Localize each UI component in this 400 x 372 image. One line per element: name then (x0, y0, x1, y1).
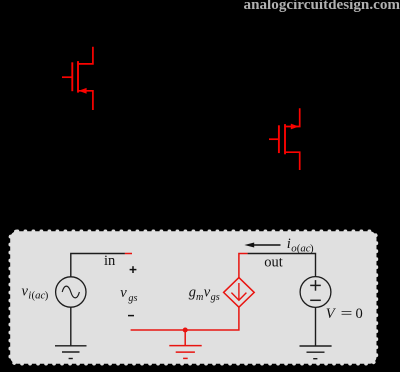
minus sign V0 (310, 299, 321, 301)
source wire M2 (top) (285, 108, 300, 126)
plus sign (vgs) (130, 266, 137, 273)
gate lead M2 (269, 138, 278, 140)
gate bar M1 (71, 62, 73, 91)
dependent source G1 (diamond) (224, 278, 255, 308)
channel bar M1 (77, 61, 79, 93)
node in (red tip) (125, 253, 132, 255)
svg-text:): ) (310, 242, 314, 254)
label out (264, 255, 283, 271)
wire: G1 bottom + bottom rail (131, 307, 239, 330)
ground center (red) (169, 330, 201, 358)
source V0 (300, 277, 331, 308)
wire: V0 bottom (315, 307, 317, 346)
plus sign V0 (310, 280, 321, 291)
ground left (55, 346, 87, 359)
svg-text:g: g (189, 285, 196, 301)
wire: out rail to V0 (248, 254, 316, 277)
svg-text:0: 0 (356, 306, 363, 322)
minus sign (vgs) (128, 315, 134, 317)
svg-text:analogcircuitdesign.com: analogcircuitdesign.com (244, 0, 400, 13)
wire: Vi top to in (71, 254, 125, 277)
gate bar M2 (278, 125, 280, 153)
svg-text:v: v (120, 285, 127, 301)
small-signal model box (10, 231, 376, 364)
drain wire M2 (bottom) (285, 152, 300, 170)
transistor M1 (62, 47, 93, 110)
channel bar M2 (284, 124, 286, 154)
transistor M2 (269, 108, 300, 170)
svg-text:): ) (45, 290, 49, 302)
watermark analogcircuitdesign.com (244, 0, 400, 13)
svg-text:out: out (264, 255, 283, 271)
svg-text:gs: gs (128, 293, 137, 304)
wire: Vi bottom (70, 307, 72, 346)
junction dot (183, 328, 188, 333)
label in (104, 253, 116, 269)
svg-text:in: in (104, 253, 116, 269)
label io(ac) (287, 236, 314, 255)
gate lead M1 (62, 76, 72, 78)
drain wire M1 (78, 47, 93, 64)
svg-text:m: m (196, 292, 203, 303)
ground right (300, 346, 332, 359)
source arrow M1 (79, 88, 87, 94)
source arrow M2 (291, 124, 299, 130)
label gm vgs (189, 285, 220, 304)
label V = 0 (326, 306, 363, 322)
svg-text:gs: gs (211, 292, 220, 303)
source wire M1 (78, 91, 93, 110)
label v_i(ac) (22, 283, 49, 301)
svg-text:=: = (341, 306, 353, 322)
arrow io(ac) (244, 243, 280, 248)
label v_gs (120, 285, 137, 304)
wire: G1 top to out rail (red part) (239, 254, 248, 278)
source Vi (AC) (56, 277, 86, 307)
